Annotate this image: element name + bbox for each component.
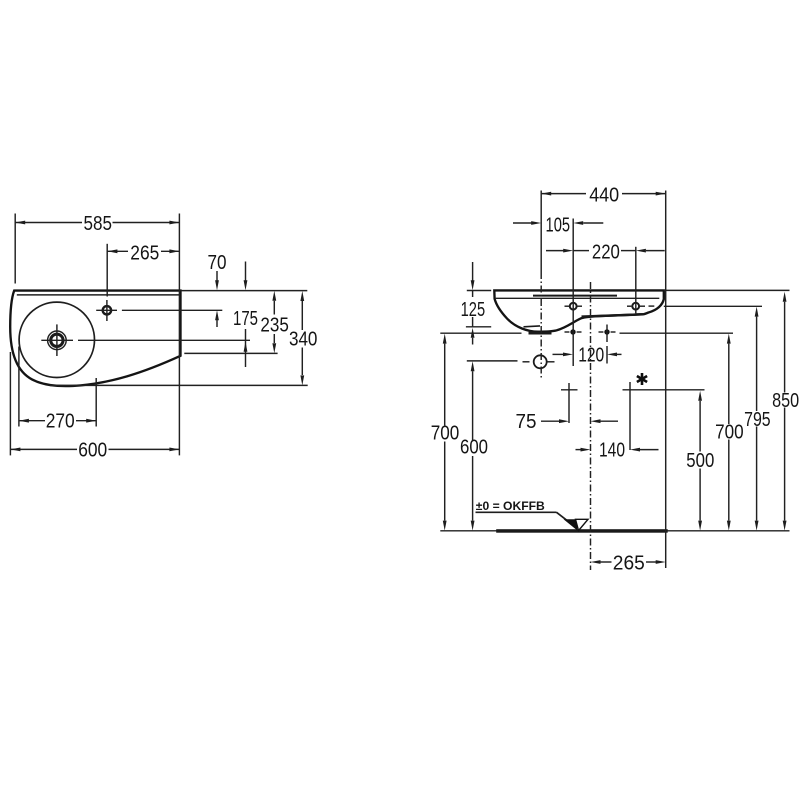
dim 795	[755, 307, 759, 317]
svg-text:700: 700	[431, 423, 460, 445]
ext 585/265/600 right	[178, 214, 180, 456]
svg-text:70: 70	[208, 252, 227, 274]
ext 440/265 right	[665, 191, 667, 569]
125 bottom tick	[466, 326, 491, 328]
700 ref line	[440, 332, 521, 334]
235 ref line	[184, 352, 277, 354]
svg-text:75: 75	[516, 411, 537, 433]
dim 120	[553, 353, 566, 355]
ext 220 right	[635, 247, 637, 314]
svg-text:105: 105	[546, 215, 571, 237]
rim bottom line	[496, 297, 660, 299]
svg-text:600: 600	[78, 439, 107, 461]
basin outline	[494, 290, 664, 331]
inner bottom tick	[524, 325, 541, 328]
overflow circle	[534, 355, 547, 368]
dim 700 left	[443, 334, 447, 344]
drain outer circle	[48, 331, 67, 350]
dim 440	[541, 193, 586, 195]
inner rim line	[17, 294, 180, 296]
ext 440 left / centerline drain	[540, 191, 542, 273]
dim 500	[698, 391, 702, 401]
level symbol triangles	[564, 519, 578, 530]
drain ring	[51, 334, 63, 346]
svg-text:265: 265	[130, 242, 159, 264]
centerline middle	[590, 282, 592, 570]
drain boss	[529, 332, 552, 335]
dim 700 right	[727, 334, 731, 344]
ext 270 left	[18, 347, 20, 427]
faucet crosshair	[96, 309, 117, 311]
dim 265 line	[107, 250, 128, 252]
mounting hole right	[632, 303, 639, 310]
svg-text:120: 120	[578, 344, 604, 366]
ext 270 right	[95, 378, 97, 427]
svg-text:220: 220	[592, 242, 620, 264]
svg-text:±0 = OKFFB: ±0 = OKFFB	[476, 499, 545, 513]
floor thin line	[440, 530, 789, 532]
dim 600 right view	[471, 361, 475, 371]
basin outline	[10, 291, 180, 386]
ledge thick line	[582, 314, 644, 316]
asterisk	[637, 373, 647, 385]
125 top tick	[467, 290, 491, 292]
dim 600	[10, 448, 77, 450]
dim 220	[546, 250, 566, 252]
dim 340	[300, 291, 304, 301]
600 ref line	[467, 360, 518, 362]
svg-text:175: 175	[233, 308, 258, 330]
svg-text:340: 340	[289, 329, 318, 351]
lower hole left	[570, 329, 575, 334]
drain crosshair	[41, 339, 73, 341]
faucet line right	[122, 309, 222, 311]
top edge extension right	[181, 290, 308, 292]
dim 270	[19, 420, 45, 422]
svg-text:795: 795	[744, 409, 771, 431]
ext 265 left	[106, 244, 108, 297]
500 ref line	[561, 389, 578, 391]
ext 585 left	[14, 214, 16, 284]
dim 265 bottom	[591, 560, 601, 564]
svg-text:600: 600	[460, 437, 488, 459]
dim 125	[472, 262, 474, 281]
svg-text:265: 265	[613, 552, 645, 574]
cross right	[629, 382, 631, 450]
rim top right extension	[664, 289, 790, 291]
dim 105	[513, 222, 533, 224]
dim 850	[783, 292, 787, 302]
drain line right	[78, 339, 250, 341]
svg-text:270: 270	[46, 411, 75, 433]
dim 585 line	[15, 222, 82, 224]
bowl circle	[19, 302, 94, 377]
floor thick bar	[496, 529, 668, 533]
ext 105 right / hole line	[572, 219, 574, 367]
795 ref line	[664, 305, 762, 307]
340 ref line	[50, 384, 308, 386]
svg-text:440: 440	[589, 184, 619, 206]
ext 600 left	[9, 352, 11, 455]
dim 175	[245, 262, 247, 282]
dim 140	[576, 449, 584, 451]
cross left	[568, 383, 570, 423]
svg-text:140: 140	[599, 439, 625, 461]
svg-text:850: 850	[772, 390, 799, 412]
mounting hole left	[570, 303, 577, 310]
inner back edge	[533, 295, 617, 297]
faucet hole ring	[103, 306, 111, 314]
lower hole right	[604, 329, 609, 334]
dim 235	[272, 291, 276, 301]
svg-text:585: 585	[84, 213, 113, 235]
svg-text:235: 235	[260, 314, 289, 336]
